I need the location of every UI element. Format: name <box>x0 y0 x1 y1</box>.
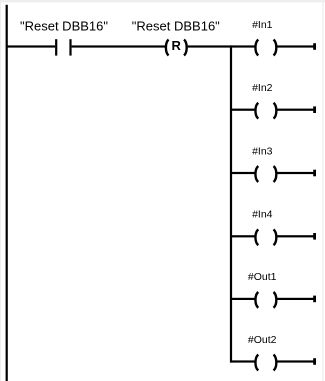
coil In2 right paren <box>274 103 277 119</box>
svg-text:#Out2: #Out2 <box>248 334 277 346</box>
svg-text:"Reset DBB16": "Reset DBB16" <box>20 18 108 33</box>
contact "Reset DBB16" right bar <box>69 39 71 55</box>
branch vertical wire <box>230 45 232 362</box>
coil In3 right paren <box>274 166 277 182</box>
wire branch to Out2 coil <box>230 360 255 362</box>
wire rail to contact <box>6 45 55 47</box>
wire In4 coil to end <box>277 235 315 237</box>
end tick row 1 <box>313 43 316 50</box>
end tick row 4 <box>313 233 316 240</box>
coil (R) left paren <box>166 40 169 56</box>
svg-text:R: R <box>172 38 182 53</box>
wire In2 coil to end <box>277 109 315 111</box>
frame border left <box>0 0 1 381</box>
svg-text:#In3: #In3 <box>252 145 273 157</box>
end tick row 6 <box>313 358 316 365</box>
svg-text:#In4: #In4 <box>252 209 273 221</box>
contact "Reset DBB16" left bar <box>55 39 57 55</box>
coil In4 left paren <box>255 229 258 245</box>
coil Out1 left paren <box>255 292 258 308</box>
left power rail <box>6 5 8 381</box>
wire reset coil to In1 coil through branch <box>188 45 255 47</box>
wire branch to In3 coil <box>230 172 255 174</box>
svg-text:"Reset DBB16": "Reset DBB16" <box>132 18 220 33</box>
wire contact to reset coil <box>72 45 166 47</box>
svg-text:#Out1: #Out1 <box>248 271 277 283</box>
wire Out2 coil to end <box>277 360 315 362</box>
svg-text:#In2: #In2 <box>252 82 273 94</box>
coil In2 left paren <box>255 103 258 119</box>
wire Out1 coil to end <box>277 298 315 300</box>
wire In3 coil to end <box>277 172 315 174</box>
coil Out2 right paren <box>274 355 277 371</box>
coil In1 right paren <box>274 40 277 56</box>
svg-text:#In1: #In1 <box>252 19 273 31</box>
coil (R) right paren <box>184 40 187 56</box>
end tick row 3 <box>313 170 316 177</box>
end tick row 5 <box>313 296 316 303</box>
frame border top <box>0 0 325 2</box>
end tick row 2 <box>313 106 316 113</box>
coil Out2 left paren <box>255 355 258 371</box>
wire branch to In2 coil <box>230 109 255 111</box>
wire branch to In4 coil <box>230 235 255 237</box>
coil In4 right paren <box>274 229 277 245</box>
coil In1 left paren <box>255 40 258 56</box>
coil In3 left paren <box>255 166 258 182</box>
coil Out1 right paren <box>274 292 277 308</box>
frame border right <box>322 0 323 381</box>
wire In1 coil to end <box>277 45 315 47</box>
wire branch to Out1 coil <box>230 298 255 300</box>
